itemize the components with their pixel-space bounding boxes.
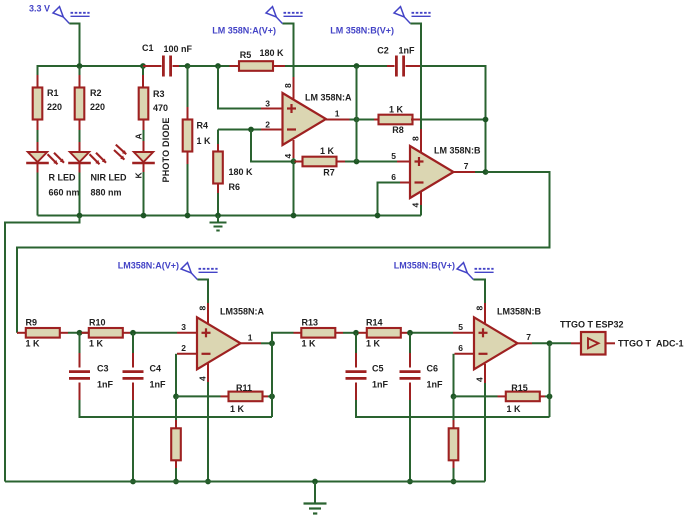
- node R10 right: [130, 330, 136, 336]
- svg-text:R3: R3: [153, 89, 165, 99]
- photodiode D3: [114, 117, 171, 215]
- node R7 left pin4A: [291, 159, 297, 165]
- resistor R1: [33, 66, 62, 142]
- svg-text:1 K: 1 K: [389, 105, 404, 115]
- resistor R3: [139, 66, 168, 141]
- svg-text:1nF: 1nF: [427, 380, 444, 390]
- pin 6 U1:B: [378, 172, 411, 216]
- capacitor C2: [377, 46, 421, 77]
- node bus R16: [451, 479, 457, 485]
- capacitor C6: [400, 333, 444, 482]
- node C2 left: [354, 63, 360, 69]
- node R15 right: [547, 394, 553, 400]
- svg-text:100 nF: 100 nF: [164, 44, 193, 54]
- svg-text:2: 2: [265, 120, 270, 130]
- svg-text:K: K: [134, 172, 144, 179]
- node R8 right: [483, 117, 489, 123]
- pin 4 U1:B: [411, 192, 422, 216]
- node bus photodiode: [141, 213, 147, 219]
- pin 1 U1:A output: [326, 109, 357, 120]
- resistor R15: [454, 383, 550, 414]
- node bus R4: [185, 213, 191, 219]
- wire pin2 net: [218, 120, 283, 130]
- svg-text:5: 5: [458, 322, 463, 332]
- svg-text:880 nm: 880 nm: [91, 188, 122, 198]
- node R13-R14: [353, 330, 359, 336]
- svg-text:8: 8: [411, 136, 421, 141]
- svg-text:R LED: R LED: [49, 173, 77, 183]
- node R14 right: [407, 330, 413, 336]
- node bus pin4A: [291, 213, 297, 219]
- resistor R9: [17, 318, 89, 349]
- wire feedback column U2:B: [549, 343, 551, 417]
- power flag LM 358N:B(V+): [330, 7, 430, 129]
- capacitor C4: [123, 333, 167, 482]
- wire rail C1-R5: [188, 65, 230, 67]
- node C1 right R4: [185, 63, 191, 69]
- svg-text:6: 6: [391, 172, 396, 182]
- svg-text:7: 7: [526, 332, 531, 342]
- node bus R12: [173, 479, 179, 485]
- node R9-R10: [77, 330, 83, 336]
- svg-text:R14: R14: [366, 318, 383, 328]
- node pin3 feed: [215, 63, 221, 69]
- svg-text:TTGO T ADC-1: TTGO T ADC-1: [618, 339, 684, 349]
- svg-text:LM358N:A: LM358N:A: [220, 307, 265, 317]
- node bus pin6B: [375, 213, 381, 219]
- svg-text:7: 7: [464, 161, 469, 171]
- svg-text:LM 358N:B(V+): LM 358N:B(V+): [330, 26, 394, 36]
- svg-text:1nF: 1nF: [97, 380, 114, 390]
- svg-text:1 K: 1 K: [89, 339, 104, 349]
- resistor R11: [176, 383, 272, 414]
- wire vertical feedback column: [356, 66, 358, 162]
- node bus pin4 U2:A: [205, 479, 211, 485]
- resistor R4: [183, 66, 211, 216]
- svg-text:R13: R13: [302, 318, 319, 328]
- resistor R8: [357, 105, 486, 136]
- node bus ground stem: [312, 479, 318, 485]
- node bus NIR: [77, 213, 83, 219]
- svg-text:C2: C2: [377, 46, 389, 56]
- pin 8 U2:B: [475, 303, 486, 323]
- wire feedback column U2:A: [271, 343, 273, 417]
- svg-text:1: 1: [248, 333, 253, 343]
- svg-text:R6: R6: [229, 182, 241, 192]
- svg-text:1: 1: [335, 109, 340, 119]
- node pin1 A: [354, 117, 360, 123]
- svg-text:R4: R4: [197, 121, 209, 131]
- pin 8 U1:A: [282, 24, 293, 100]
- node pin7 B: [483, 169, 489, 175]
- svg-text:220: 220: [90, 102, 105, 112]
- resistor R10: [82, 318, 178, 349]
- svg-text:R1: R1: [47, 88, 59, 98]
- capacitor C5: [346, 333, 550, 417]
- pin 8 U1:B: [411, 129, 422, 152]
- wire top supply rail: [37, 65, 144, 67]
- svg-text:1 K: 1 K: [230, 404, 245, 414]
- pin 7 U1:B output: [454, 161, 486, 172]
- pin 2 U2:A: [176, 343, 197, 396]
- svg-text:180 K: 180 K: [259, 48, 284, 58]
- node supply-R2: [77, 63, 83, 69]
- node pin7 U2:B: [547, 340, 553, 346]
- svg-text:3.3 V: 3.3 V: [29, 4, 50, 14]
- pin 1 U2:A output: [240, 333, 272, 344]
- pin 3 U2:A: [177, 322, 197, 333]
- svg-text:4: 4: [475, 377, 485, 382]
- svg-text:PHOTO DIODE: PHOTO DIODE: [161, 117, 171, 182]
- pin 8 U2:A: [198, 303, 209, 323]
- svg-text:4: 4: [198, 376, 208, 381]
- ground symbol top: [210, 216, 227, 231]
- resistor R14: [359, 318, 454, 349]
- svg-text:1 K: 1 K: [197, 136, 212, 146]
- power flag 3.3V: [29, 4, 90, 67]
- svg-text:8: 8: [475, 306, 485, 311]
- svg-text:LM358N:B: LM358N:B: [497, 307, 542, 317]
- svg-text:C6: C6: [427, 364, 439, 374]
- wire ground link left: [5, 216, 80, 482]
- svg-text:1 K: 1 K: [302, 339, 317, 349]
- wire bus corner left: [420, 215, 422, 217]
- capacitor C3: [69, 333, 272, 417]
- op-amp U1:A LM 358N:A: [283, 93, 353, 146]
- svg-text:TTGO T ESP32: TTGO T ESP32: [560, 320, 624, 330]
- svg-text:1 K: 1 K: [366, 339, 381, 349]
- svg-text:470: 470: [153, 103, 168, 113]
- svg-text:220: 220: [47, 102, 62, 112]
- wire rail R5-C2: [285, 65, 387, 67]
- node R15 left: [451, 394, 457, 400]
- svg-text:2: 2: [181, 343, 186, 353]
- svg-text:R7: R7: [323, 168, 335, 178]
- svg-text:A: A: [134, 133, 144, 139]
- capacitor C1: [142, 43, 193, 77]
- svg-text:4: 4: [411, 203, 421, 208]
- svg-text:3: 3: [265, 99, 270, 109]
- svg-text:1nF: 1nF: [372, 380, 389, 390]
- power flag LM358N:B(V+) stage2: [394, 261, 494, 304]
- resistor R13: [294, 318, 359, 349]
- svg-text:LM 358N:B: LM 358N:B: [434, 146, 481, 156]
- node pin1 U2:A: [269, 340, 275, 346]
- svg-text:5: 5: [391, 151, 396, 161]
- svg-text:6: 6: [458, 343, 463, 353]
- svg-text:LM 358N:A(V+): LM 358N:A(V+): [212, 26, 276, 36]
- pin 5 U2:B: [453, 322, 474, 333]
- op-amp U2:A LM358N:A: [197, 307, 265, 370]
- resistor R12 unlabeled: [171, 396, 181, 481]
- svg-text:LM358N:B(V+): LM358N:B(V+): [394, 261, 455, 271]
- svg-text:180 K: 180 K: [229, 167, 254, 177]
- svg-text:660 nm: 660 nm: [49, 188, 80, 198]
- pin 4 U1:A: [283, 140, 294, 216]
- svg-text:3: 3: [181, 322, 186, 332]
- svg-text:R11: R11: [236, 383, 252, 393]
- wire C2 right to feedback: [421, 66, 486, 172]
- node pin2 feedback: [248, 127, 254, 133]
- pin 6 U2:B: [454, 343, 475, 396]
- node bus C4: [130, 479, 136, 485]
- connector TTGO T ESP32: [550, 320, 684, 355]
- svg-text:C3: C3: [97, 364, 109, 374]
- op-amp U1:B LM 358N:B: [410, 146, 481, 199]
- svg-text:LM 358N:A: LM 358N:A: [305, 93, 352, 103]
- svg-text:1 K: 1 K: [506, 404, 521, 414]
- node R7 right: [354, 159, 360, 165]
- resistor R7: [294, 146, 397, 178]
- svg-text:NIR LED: NIR LED: [91, 173, 128, 183]
- wire pin3 feed: [218, 66, 283, 109]
- svg-text:1nF: 1nF: [150, 380, 167, 390]
- svg-text:1nF: 1nF: [398, 46, 415, 56]
- op-amp U2:B LM358N:B: [474, 307, 542, 370]
- resistor R6: [213, 130, 253, 216]
- node bus C6: [407, 479, 413, 485]
- resistor R5: [230, 48, 286, 71]
- pin 4 U2:B: [475, 364, 486, 482]
- LED D2 NIR LED: [68, 142, 127, 216]
- node R11 left: [173, 394, 179, 400]
- node C1 left: [140, 63, 146, 69]
- pin 4 U2:A: [198, 364, 209, 482]
- wire output U2:A to R13: [272, 333, 294, 344]
- svg-text:LM358N:A(V+): LM358N:A(V+): [118, 261, 179, 271]
- pin 5 U1:B: [391, 151, 410, 162]
- node bus R6 ground: [215, 213, 221, 219]
- svg-text:8: 8: [198, 306, 208, 311]
- power flag LM 358N:A(V+): [212, 7, 302, 36]
- svg-text:R2: R2: [90, 88, 102, 98]
- ground symbol bottom: [304, 482, 327, 514]
- power flag LM358N:A(V+) stage2: [118, 261, 218, 304]
- resistor R16 unlabeled: [449, 396, 459, 481]
- wire ground bus top: [38, 215, 422, 217]
- pin 7 U2:B output: [517, 332, 550, 343]
- wire ground bus bottom: [5, 481, 485, 483]
- svg-text:C4: C4: [150, 364, 162, 374]
- svg-text:R8: R8: [392, 125, 404, 135]
- svg-text:R9: R9: [26, 318, 38, 328]
- svg-text:4: 4: [283, 154, 293, 159]
- wire feedback drop: [251, 130, 294, 162]
- node R11 right: [269, 394, 275, 400]
- svg-text:R15: R15: [511, 383, 528, 393]
- LED D1 R LED: [26, 142, 79, 216]
- svg-text:C1: C1: [142, 43, 154, 53]
- svg-text:1 K: 1 K: [26, 339, 41, 349]
- svg-text:8: 8: [283, 83, 293, 88]
- resistor R2: [75, 66, 105, 142]
- svg-text:R5: R5: [240, 50, 252, 60]
- svg-text:R10: R10: [89, 318, 106, 328]
- wire output loop to stage 2: [17, 172, 550, 333]
- svg-text:C5: C5: [372, 364, 384, 374]
- svg-text:1 K: 1 K: [320, 146, 335, 156]
